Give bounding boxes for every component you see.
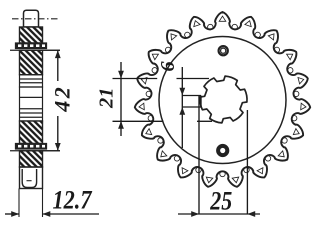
top pilot	[24, 10, 39, 27]
dim 12.7	[18, 189, 20, 218]
dim 21: vertical line with outside arrows	[120, 62, 122, 136]
svg-text:42: 42	[49, 85, 74, 113]
tooth tip triangles	[219, 16, 226, 21]
top bolt hole	[219, 46, 228, 55]
white dots in roller bands	[18, 44, 45, 147]
splined bore	[200, 76, 247, 123]
plain mid	[20, 87, 43, 121]
svg-text:12.7: 12.7	[53, 186, 93, 215]
svg-text:6: 6	[157, 61, 179, 72]
centerline top	[12, 18, 60, 20]
root circle	[159, 37, 286, 164]
sprocket outer teeth outline	[135, 12, 310, 187]
dim 6	[181, 67, 183, 148]
bottom bolt hole	[218, 146, 227, 155]
dim 25	[198, 96, 200, 215]
roller band 2	[16, 144, 47, 150]
bottom shaft inner	[22, 169, 36, 188]
roller band 1	[16, 43, 47, 49]
svg-text:21: 21	[95, 87, 117, 109]
dim 42	[43, 49, 60, 51]
hatch block 4	[20, 151, 43, 167]
chain line 2	[10, 150, 60, 152]
hatch block 3	[20, 121, 43, 144]
hatch block 1	[20, 27, 43, 43]
dim 21: extension lines	[113, 78, 158, 80]
lines band	[20, 75, 43, 87]
bottom shaft outer	[20, 167, 43, 189]
chain line 1	[10, 49, 60, 51]
valley roller cups	[232, 24, 237, 29]
hatch block 2	[20, 50, 43, 74]
svg-text:25: 25	[209, 186, 232, 216]
